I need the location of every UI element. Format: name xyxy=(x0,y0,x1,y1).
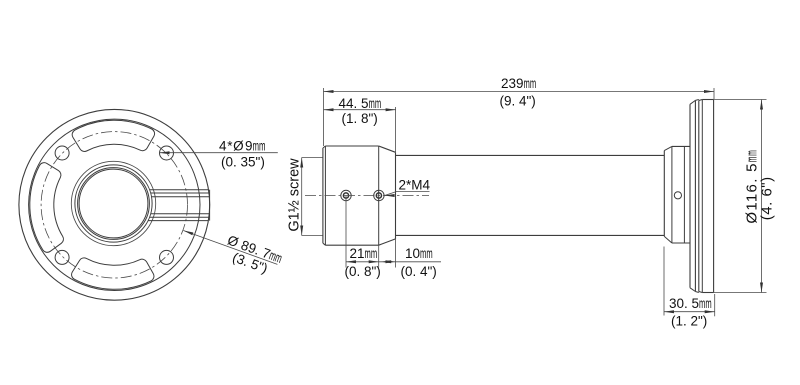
svg-text:4*Ø: 4*Ø xyxy=(219,139,244,154)
svg-text:2*M4: 2*M4 xyxy=(399,178,431,193)
svg-text:G1½ screw: G1½ screw xyxy=(286,158,302,232)
svg-text:9mm: 9mm xyxy=(245,139,266,154)
svg-text:(0. 4"): (0. 4") xyxy=(401,264,437,279)
svg-text:(0. 8"): (0. 8") xyxy=(345,264,381,279)
svg-text:44. 5mm: 44. 5mm xyxy=(339,96,382,111)
svg-text:(0. 35"): (0. 35") xyxy=(221,154,265,169)
svg-text:239mm: 239mm xyxy=(501,76,536,91)
svg-text:(4. 6"): (4. 6") xyxy=(759,176,776,220)
svg-text:10mm: 10mm xyxy=(405,246,433,261)
svg-text:(9. 4"): (9. 4") xyxy=(500,94,536,109)
svg-text:(1. 2"): (1. 2") xyxy=(671,314,707,329)
svg-text:30. 5mm: 30. 5mm xyxy=(669,296,712,311)
svg-text:(1. 8"): (1. 8") xyxy=(342,111,378,126)
svg-text:21mm: 21mm xyxy=(350,246,378,261)
